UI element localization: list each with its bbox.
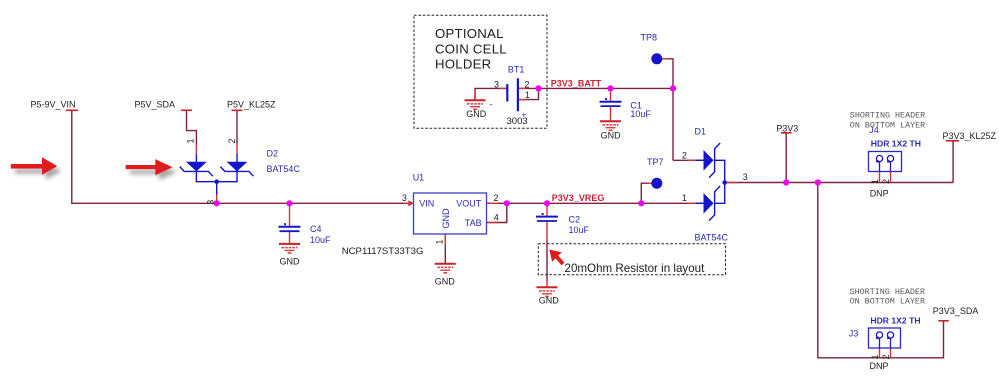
svg-text:TP7: TP7 [647,157,664,167]
svg-text:P3V3_BATT: P3V3_BATT [551,79,602,89]
svg-text:GND: GND [441,208,451,229]
svg-text:2: 2 [525,80,530,90]
svg-text:DNP: DNP [870,361,889,371]
svg-text:BAT54C: BAT54C [267,164,301,174]
svg-text:10uF: 10uF [310,235,331,245]
svg-text:ON BOTTOM LAYER: ON BOTTOM LAYER [850,297,925,307]
svg-text:1: 1 [435,239,445,244]
svg-text:D1: D1 [695,127,707,137]
svg-text:10uF: 10uF [569,225,590,235]
svg-text:VIN: VIN [419,199,434,209]
svg-text:1: 1 [525,90,530,100]
svg-text:1: 1 [186,138,196,143]
svg-text:HOLDER: HOLDER [435,57,491,72]
svg-text:SHORTING HEADER: SHORTING HEADER [850,287,925,297]
svg-text:OPTIONAL: OPTIONAL [435,26,504,41]
svg-text:GND: GND [280,257,301,267]
svg-text:2: 2 [682,151,687,161]
svg-text:P3V3: P3V3 [776,124,798,134]
svg-text:P3V3_VREG: P3V3_VREG [552,193,605,203]
svg-text:1: 1 [870,179,880,184]
svg-text:BT1: BT1 [508,65,525,75]
svg-text:-: - [490,99,493,109]
svg-text:1: 1 [870,354,880,359]
svg-text:3: 3 [206,200,216,205]
svg-text:BAT54C: BAT54C [695,233,729,243]
svg-text:SHORTING HEADER: SHORTING HEADER [850,111,925,121]
svg-text:GND: GND [539,296,560,306]
svg-text:P5V_KL25Z: P5V_KL25Z [227,100,276,110]
svg-text:TP8: TP8 [641,33,658,43]
svg-text:ON BOTTOM LAYER: ON BOTTOM LAYER [850,120,925,130]
svg-text:10uF: 10uF [630,109,651,119]
svg-text:1: 1 [682,193,687,203]
svg-text:HDR 1X2 TH: HDR 1X2 TH [871,139,921,149]
svg-text:2: 2 [227,138,237,143]
svg-text:GND: GND [601,131,622,141]
svg-text:COIN CELL: COIN CELL [435,41,507,56]
svg-text:20mOhm Resistor in layout: 20mOhm Resistor in layout [565,262,706,275]
svg-text:GND: GND [466,109,487,119]
svg-text:NCP1117ST33T3G: NCP1117ST33T3G [342,246,424,257]
svg-text:2: 2 [881,179,891,184]
svg-text:HDR 1X2 TH: HDR 1X2 TH [870,316,920,326]
svg-text:C2: C2 [569,215,581,225]
svg-text:P3V3_KL25Z: P3V3_KL25Z [943,131,997,141]
svg-text:U1: U1 [413,173,425,183]
svg-text:P5V_SDA: P5V_SDA [135,100,176,110]
svg-text:DNP: DNP [870,189,889,199]
svg-text:C4: C4 [310,224,322,234]
svg-text:P5-9V_VIN: P5-9V_VIN [31,100,76,110]
svg-text:J3: J3 [849,329,859,339]
svg-text:3: 3 [402,193,407,203]
svg-text:3: 3 [494,80,499,90]
svg-text:TAB: TAB [465,218,482,228]
svg-text:+: + [522,111,527,120]
svg-text:GND: GND [435,277,456,287]
svg-text:4: 4 [494,213,499,223]
svg-text:D2: D2 [267,149,279,159]
svg-text:VOUT: VOUT [456,199,482,209]
svg-text:2: 2 [881,354,891,359]
svg-text:P3V3_SDA: P3V3_SDA [933,306,979,316]
svg-text:3: 3 [743,172,748,182]
svg-text:2: 2 [493,193,498,203]
